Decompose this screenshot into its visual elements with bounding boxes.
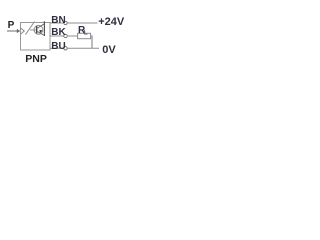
wire BN from box to terminal [50,22,64,24]
background [0,0,134,75]
node BU terminal circle [64,47,67,50]
wire base lead [30,29,37,31]
sensor box U1 [21,23,51,51]
transistor Q1 arrow [39,30,42,33]
svg-text:BU: BU [51,41,65,52]
node sensor diagonal slash [26,22,35,35]
svg-text:BN: BN [51,15,65,26]
svg-text:PNP: PNP [25,53,47,65]
wire P input lead [7,30,18,32]
wire resistor to corner [91,35,92,37]
wire BN to +24V [67,22,97,24]
wire collector vertical to BK [43,21,45,36]
wire BK from box to terminal [50,35,64,37]
node P input arrowhead [17,29,21,33]
wire BU from box to terminal [50,47,64,49]
svg-text:+24V: +24V [98,16,125,28]
node BK terminal circle [64,34,67,37]
svg-text:0V: 0V [102,44,116,56]
transistor Q1 base bar [36,26,38,33]
svg-text:BK: BK [51,27,66,38]
svg-text:L: L [84,29,88,36]
wire BK to load resistor [67,35,77,37]
node sensing chevron [21,28,25,34]
node BN terminal circle [64,21,67,24]
wire vertical down to 0V rail [91,36,93,49]
transistor Q1 emitter diagonal [37,24,45,29]
wire BU to 0V [67,47,99,49]
transistor Q1 circle [34,25,43,34]
resistor RL body [78,33,91,38]
svg-text:P: P [8,20,15,31]
transistor Q1 collector diagonal [37,31,45,35]
